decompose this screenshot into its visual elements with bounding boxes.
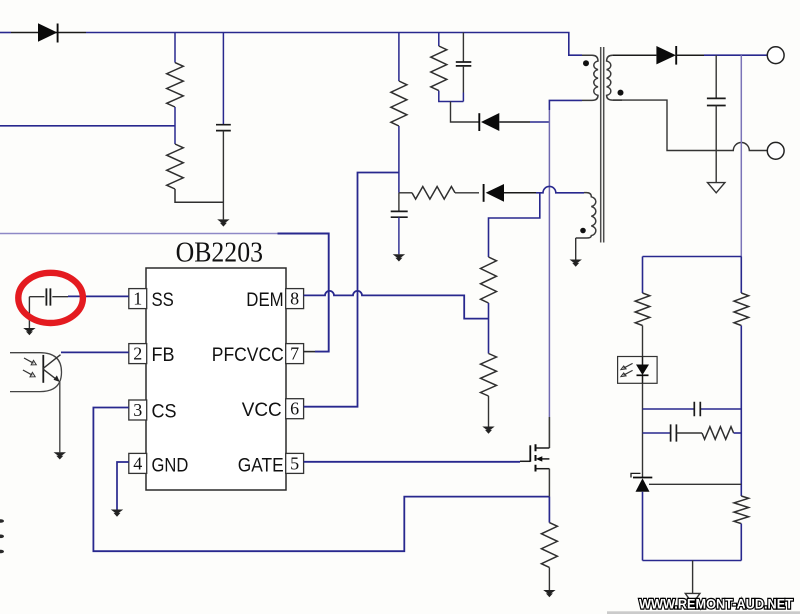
svg-text:6: 6 <box>290 399 299 419</box>
ground below C2 <box>393 254 405 261</box>
ground below C1 <box>217 219 229 226</box>
wire primary bottom to drain rail corner <box>549 100 582 110</box>
resistor R7 snubber <box>431 46 447 91</box>
svg-text:GND: GND <box>152 455 189 477</box>
svg-text:8: 8 <box>290 289 299 309</box>
wire compensation row 1 <box>643 408 742 410</box>
resistor R2 input divider lower <box>167 144 184 189</box>
resistor R5 DEM divider upper <box>481 257 497 303</box>
wire output plus rail <box>704 54 767 56</box>
transistor Q1 MOSFET <box>520 444 549 471</box>
wire secondary top to D3 <box>613 54 656 56</box>
bottom gray strip <box>607 611 800 614</box>
wire feedback right rail upper <box>740 257 742 294</box>
op-amp U1 OB2203 controller body <box>146 268 286 490</box>
resistor R9 compensation <box>702 427 734 440</box>
svg-text:DEM: DEM <box>246 289 283 311</box>
wire aux winding return to ground <box>575 238 577 260</box>
resistor R12 current sense <box>541 523 557 568</box>
wire DEM pin 8 with two hops <box>304 291 489 319</box>
wire R8 to opto LED <box>642 326 644 357</box>
red highlight circle <box>18 273 83 323</box>
wire PFCVCC pin 7 (light far segment) <box>0 233 278 235</box>
capacitor C2 <box>391 211 408 254</box>
pin 1 box pin number 1 <box>129 289 147 309</box>
ground current sense resistor <box>543 590 555 597</box>
wire feedback top rail <box>643 256 742 258</box>
wire aux node down to DEM divider <box>489 193 540 257</box>
svg-text:2: 2 <box>133 344 142 364</box>
wire source to R12 <box>548 497 550 523</box>
resistor R1 input divider upper <box>167 63 184 107</box>
ground below R6 <box>482 427 494 434</box>
wire CS pin 3 loop <box>93 408 549 552</box>
wire FB pin 2 <box>61 351 129 353</box>
wire snubber bottom joint <box>439 91 464 102</box>
wire feedback sense rail (right vertical) <box>740 55 742 256</box>
wire rail to R1 <box>174 33 176 63</box>
wire R5-R6 junction (DEM tap) <box>488 303 490 354</box>
left edge winding stubs <box>0 519 4 553</box>
wire C7 to R9 <box>677 432 702 434</box>
pin 4 box pin number 4 <box>129 453 147 473</box>
diode D3 output rectifier <box>656 46 704 65</box>
wire TL431 ref row <box>649 483 741 485</box>
optocoupler U2 LED side <box>618 357 658 384</box>
svg-text:5: 5 <box>290 453 299 473</box>
wire top input rail <box>0 33 582 56</box>
svg-text:FB: FB <box>152 344 175 366</box>
wire left branch to R8 <box>642 257 644 294</box>
wire rail to C3 <box>462 33 464 62</box>
wire bottom rail to ground <box>692 561 694 594</box>
pin 3 box pin number 3 <box>129 400 147 420</box>
wire R2 bottom to C1 <box>175 189 223 202</box>
diode D1 input rectifier <box>11 23 86 42</box>
svg-text:WWW.REMONT-AUD.NET: WWW.REMONT-AUD.NET <box>639 597 794 612</box>
wire R12 to ground <box>548 567 550 590</box>
terminal output minus <box>767 142 784 159</box>
TL431 shunt regulator <box>631 473 652 491</box>
wire output cap branch <box>715 55 717 98</box>
wire secondary bottom to output minus <box>613 100 767 150</box>
capacitor C6 compensation <box>694 402 700 416</box>
wire R1-R2 junction <box>174 107 176 144</box>
pin 7 box pin number 7 <box>286 344 304 364</box>
wire R6 to ground <box>488 396 490 427</box>
capacitor C3 snubber <box>456 62 472 102</box>
wire rail to R3 <box>398 33 400 82</box>
wire VCC pin 6 riser <box>304 173 399 407</box>
wire PFCVCC pin 7 stub <box>304 351 315 353</box>
resistor R10 feedback divider upper <box>734 293 749 326</box>
wire rail to C1 <box>222 33 224 125</box>
wire feedback bottom rail <box>643 560 742 562</box>
wire SS pin 1 <box>68 295 129 297</box>
svg-text:4: 4 <box>133 453 142 473</box>
optocoupler U2 phototransistor side <box>10 353 62 392</box>
wire opto emitter to ground <box>59 382 61 452</box>
ground soft-start cap <box>23 328 35 335</box>
transformer core <box>601 47 604 243</box>
wire clamp diode to drain rail <box>530 121 549 123</box>
resistor R3 PFC sense upper <box>391 81 407 126</box>
svg-text:GATE: GATE <box>238 455 284 477</box>
wire R4 to D2 <box>455 192 479 194</box>
resistor R6 DEM divider lower <box>481 354 497 397</box>
pin 6 box pin number 6 <box>286 399 304 419</box>
svg-text:CS: CS <box>152 401 177 423</box>
pin 8 box pin number 8 <box>286 289 304 309</box>
diode D2 aux rectifier <box>484 184 536 202</box>
resistor R11 feedback divider lower <box>734 496 749 524</box>
capacitor C5 output filter <box>707 98 726 182</box>
terminal output plus <box>767 47 784 64</box>
pin 5 box pin number 5 <box>286 453 304 473</box>
wire feedback right rail middle <box>740 326 742 497</box>
wire drain rail lower (dark) <box>548 417 550 448</box>
wire snubber node down to clamp diode <box>451 102 480 123</box>
capacitor C7 compensation <box>671 424 677 441</box>
capacitor C1 input filter <box>216 125 231 220</box>
wire R3 bottom to node / VCC junction <box>398 126 400 193</box>
transformer secondary winding <box>607 55 624 100</box>
wire TL431 anode to bottom rail <box>642 492 644 561</box>
svg-text:1: 1 <box>133 289 142 309</box>
wire opto LED to TL431 <box>642 383 644 477</box>
wire input divider mid tap <box>0 125 175 127</box>
pin 2 box pin number 2 <box>129 344 147 364</box>
wire GATE pin 5 <box>304 461 520 463</box>
svg-text:VCC: VCC <box>242 399 282 421</box>
resistor R4 DEM series <box>412 187 455 200</box>
wire node to C2 <box>398 193 400 211</box>
wire feedback right rail bottom <box>740 524 742 561</box>
resistor R8 opto LED series <box>635 293 650 326</box>
wire GND pin 4 <box>117 462 129 510</box>
wire D2 to aux winding with hop over drain rail <box>536 186 584 192</box>
wire DEM node to R4 <box>399 192 412 194</box>
wire compensation row 2 <box>643 432 671 434</box>
wire PFCVCC pin 7 riser <box>278 234 329 352</box>
svg-text:PFCVCC: PFCVCC <box>212 344 284 366</box>
svg-text:7: 7 <box>290 344 299 364</box>
ground IC GND pin <box>111 510 123 517</box>
wire R9 to right rail <box>734 432 742 434</box>
transformer primary winding <box>582 55 598 100</box>
wire drain rail long vertical <box>548 110 550 417</box>
ground secondary (open triangle) <box>685 593 700 603</box>
svg-text:OB2203: OB2203 <box>176 238 263 269</box>
diode D4 clamp <box>479 113 530 131</box>
ground aux winding <box>570 260 582 267</box>
wire rail to R7 <box>438 33 440 47</box>
ground output (open triangle) <box>708 183 725 193</box>
transformer aux winding <box>576 193 596 238</box>
wire MOSFET source down <box>548 469 550 497</box>
capacitor C4 soft-start <box>29 288 68 328</box>
svg-text:SS: SS <box>152 289 174 311</box>
ground opto emitter <box>54 452 66 459</box>
svg-text:3: 3 <box>133 400 142 420</box>
